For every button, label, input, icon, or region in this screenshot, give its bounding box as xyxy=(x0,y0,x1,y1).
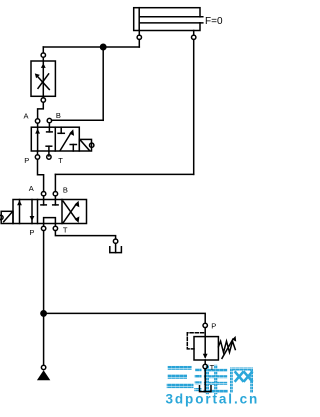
V1 port B stub xyxy=(48,123,50,127)
svg-text:P: P xyxy=(211,322,216,331)
V2 port T stub xyxy=(54,224,56,227)
V1 left position: P to A arrow xyxy=(35,127,40,151)
valve V2 body (4/3) xyxy=(13,200,87,224)
V2 centre position: blocked A xyxy=(41,200,46,205)
svg-text:T: T xyxy=(58,156,63,165)
valve V1 port T xyxy=(47,155,51,159)
pressure source PS1 xyxy=(37,370,50,380)
wire: to V1 port B xyxy=(52,119,104,121)
watermark 3dportal xyxy=(166,365,260,407)
relief valve RV1 body xyxy=(194,337,218,360)
wire: down to throttle top xyxy=(42,47,44,53)
V1 port T stub xyxy=(48,151,50,156)
wire: cylinder right port down long xyxy=(193,40,195,175)
valve V1 port A xyxy=(35,119,39,123)
svg-text:P: P xyxy=(29,228,34,237)
V1 left position: blocked T xyxy=(46,146,52,151)
relief valve RV1 port P xyxy=(203,323,207,327)
V1 left position: blocked B xyxy=(47,127,53,132)
V2 pilot actuator (left) xyxy=(0,211,13,223)
V2 centre position: P-T bypass xyxy=(44,218,56,224)
V2 port B stub xyxy=(54,196,56,200)
wire: J2 to relief valve RV1 xyxy=(44,313,206,323)
valve V1 port P xyxy=(35,155,39,159)
tank TK1 port xyxy=(113,239,117,243)
RV1 pilot line (dashed) xyxy=(187,333,203,349)
svg-text:B: B xyxy=(63,185,68,194)
junction node J1 xyxy=(101,44,106,49)
cylinder right port xyxy=(192,35,196,39)
cylinder C1 (double acting, rod right) xyxy=(134,8,203,31)
cylinder right port stub xyxy=(193,31,195,36)
wire: cylinder left port down xyxy=(138,40,140,48)
V1 right position: blocked top xyxy=(58,127,64,133)
svg-text:F=0: F=0 xyxy=(205,16,223,27)
svg-text:T: T xyxy=(210,363,215,372)
throttle valve TH1 body xyxy=(31,57,55,98)
svg-text:3dportal.cn: 3dportal.cn xyxy=(166,392,260,407)
V1 right position: diagonal arrow xyxy=(60,129,74,150)
wire: V2 P down to source xyxy=(43,231,45,366)
valve V2 port T xyxy=(53,226,57,230)
relief valve RV1 port T xyxy=(203,364,207,368)
tank TK2 xyxy=(200,369,212,392)
V1 port P stub xyxy=(37,151,39,155)
wire: J1 down xyxy=(102,47,104,120)
V2 right position: crossed arrows xyxy=(63,201,79,223)
tank TK1 xyxy=(110,243,122,252)
wire: V2 T to tank TK1 xyxy=(55,231,115,239)
cylinder left port xyxy=(137,35,141,39)
throttle bottom port xyxy=(41,98,45,102)
valve V2 port P xyxy=(41,226,45,230)
RV1 adjustment arrow xyxy=(222,336,236,358)
svg-text:A: A xyxy=(29,184,34,193)
valve V1 port B xyxy=(47,118,51,122)
wire: V1 P to V2 A xyxy=(38,159,44,191)
svg-text:P: P xyxy=(24,156,29,165)
junction node J2 xyxy=(41,311,46,316)
V2 port P stub xyxy=(43,224,45,227)
wire: down to V2 port B xyxy=(54,174,56,191)
RV1 P stub xyxy=(204,328,206,337)
V2 left position: arrow up xyxy=(17,200,22,224)
V2 centre position: blocked B xyxy=(53,200,58,205)
RV1 spring xyxy=(218,341,235,352)
svg-text:A: A xyxy=(24,112,29,121)
cylinder left port stub xyxy=(138,31,140,36)
V1 right position: blocked bottom xyxy=(70,145,76,152)
pressure source port xyxy=(41,365,45,369)
V2 left position: arrow down xyxy=(30,200,35,224)
RV1 T stub xyxy=(204,360,206,364)
wire: throttle to V1 port A xyxy=(38,102,44,119)
V1 port A stub xyxy=(37,123,39,127)
wire: top horizontal run xyxy=(43,46,139,48)
V1 pilot actuator (right) xyxy=(79,139,94,151)
svg-text:B: B xyxy=(56,111,61,120)
V2 port A stub xyxy=(43,196,45,200)
throttle top port xyxy=(41,53,45,57)
valve V1 body (4/2) xyxy=(31,127,79,151)
valve V2 port B xyxy=(53,192,57,196)
svg-text:T: T xyxy=(63,226,68,235)
wire: horizontal to valve V2 B xyxy=(55,173,193,175)
valve V2 port A xyxy=(41,192,45,196)
